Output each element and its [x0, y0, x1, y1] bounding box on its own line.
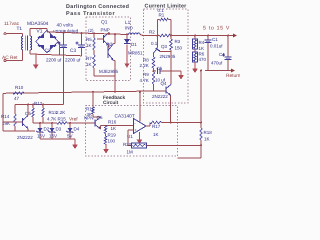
wire bend primary bottom [22, 50, 24, 61]
wire: D1 top lead [126, 34, 128, 39]
wire bend primary top [22, 34, 24, 36]
resistor R5 [93, 38, 96, 50]
junction return rail / sense [200, 70, 202, 72]
resistor R2 (on rail) [160, 34, 171, 37]
transistor Q2 (MJE2955) [107, 46, 109, 58]
junction D3 top [51, 122, 53, 124]
svg-text:2.2K: 2.2K [56, 110, 65, 115]
wire: D4 bottom lead [69, 132, 71, 139]
svg-text:2N2222: 2N2222 [17, 135, 33, 140]
junction line A corner [139, 91, 141, 93]
svg-text:unregulated: unregulated [53, 29, 79, 35]
svg-text:0.01uf: 0.01uf [210, 44, 223, 49]
wire: rail to output [171, 35, 234, 37]
wire: AC Ret to T1 primary bottom [6, 60, 23, 62]
svg-text:R20: R20 [123, 142, 132, 147]
junction C4 top [227, 35, 229, 37]
junction R4 top [194, 35, 196, 37]
current limiter dashed box [144, 9, 189, 103]
wire: Q1 emitter to rail [108, 32, 110, 34]
svg-text:R17: R17 [152, 124, 161, 129]
wire: R1 loop left [157, 20, 159, 36]
wire: C4 bottom lead [227, 60, 229, 71]
junction Q5 collector [27, 104, 29, 106]
wire: jog L1 to limiter rail [140, 35, 143, 36]
transistor Q4 (2N2222) [165, 87, 167, 94]
svg-text:4.7K: 4.7K [140, 78, 149, 83]
junction R11 top [92, 91, 94, 93]
ground below D1 [125, 64, 130, 69]
svg-text:R19: R19 [108, 132, 117, 137]
terminal 117vac [4, 33, 6, 35]
junction C2 top [63, 32, 65, 34]
ground right of C5 [180, 71, 182, 76]
svg-text:IND: IND [125, 26, 134, 31]
junction R12 top [32, 104, 34, 106]
resistor R7 [93, 55, 96, 68]
svg-text:+: + [134, 128, 137, 133]
svg-text:MR851: MR851 [128, 51, 143, 56]
svg-text:NPN: NPN [84, 116, 94, 121]
wire: secondary down to bridge top corner [46, 29, 48, 32]
svg-text:Pass Transistor: Pass Transistor [66, 11, 115, 17]
output arrowhead 5 to 15 V [233, 34, 237, 38]
wire: Q5 emitter to bottom rail [27, 129, 29, 132]
zener D2 [38, 128, 43, 132]
svg-text:5 to 15 V: 5 to 15 V [203, 26, 230, 32]
resistor R1 [160, 18, 169, 21]
capacitor C3 [78, 44, 85, 46]
svg-text:1K: 1K [153, 132, 159, 137]
svg-text:R15: R15 [58, 117, 67, 122]
wire: Vref line left part [33, 122, 57, 124]
svg-text:Vref: Vref [69, 117, 78, 123]
svg-text:R12: R12 [34, 101, 43, 106]
zener D4 [68, 128, 73, 132]
wire: bridge right corner stub [58, 41, 60, 43]
wire: line B horizontal [15, 104, 64, 106]
capacitor C1 [205, 39, 212, 41]
wire: Q5 collector up to line B [27, 105, 29, 116]
resistor R17 [150, 121, 162, 124]
feedback circuit dashed box [86, 106, 178, 157]
wire: D2 bottom lead [39, 132, 41, 139]
svg-text:R8: R8 [143, 58, 149, 63]
wire: bottom rail left [3, 130, 35, 132]
resistor R15 [57, 122, 67, 125]
wire: bottom return line [178, 157, 202, 159]
svg-text:150: 150 [175, 46, 183, 51]
T1 core line 1 [25, 36, 27, 51]
wire: D1 cathode down [126, 45, 128, 64]
wire: Q1 collector to Q2 [108, 45, 110, 48]
wire: Q6 emitter up [100, 126, 102, 130]
bridge diode 3 (bottom-left edge) [39, 45, 44, 50]
wire: R1 loop right [170, 20, 172, 36]
wire: R1 loop top-left [158, 19, 160, 21]
ground below bridge [35, 54, 37, 65]
wire: R12 top lead [32, 105, 34, 109]
svg-text:C4: C4 [219, 52, 225, 57]
svg-text:1K: 1K [204, 137, 210, 142]
capacitor C5 [157, 68, 159, 74]
wire: return rail [205, 70, 231, 72]
inductor L1 [129, 33, 141, 34]
diode D1 [124, 39, 130, 44]
resistor R3 [170, 39, 173, 50]
svg-text:470: 470 [199, 57, 207, 62]
junction R1 left [157, 35, 159, 37]
junction C5 node [153, 70, 155, 72]
svg-text:R5: R5 [86, 37, 92, 42]
wire: R1 loop top-right [169, 19, 172, 21]
svg-text:C1: C1 [212, 37, 218, 42]
svg-text:MJE2955: MJE2955 [99, 69, 119, 74]
wire: R11 bottom lead [92, 114, 94, 117]
svg-text:CA3140T: CA3140T [115, 114, 135, 120]
wire: R8 to R9 [153, 68, 155, 72]
transistor Q6 [94, 120, 96, 127]
capacitor C2 [60, 44, 67, 46]
svg-text:R3: R3 [175, 39, 181, 44]
wire: C1 top lead [207, 36, 209, 41]
resistor R20 [132, 143, 147, 148]
wire: D3 bottom lead [51, 132, 53, 139]
resistor R9 [152, 72, 155, 84]
svg-text:2200 uf: 2200 uf [65, 58, 81, 63]
wire: R11 top lead [92, 92, 94, 107]
T1 secondary winding [30, 36, 31, 50]
wire: output sense down to R18 [200, 71, 202, 123]
wire: Q3 collector down [153, 53, 155, 57]
resistor R6 [193, 52, 198, 62]
terminal AC Ret [4, 59, 6, 61]
wire: Q2 collector to rail [114, 34, 116, 43]
svg-text:1K: 1K [86, 62, 92, 67]
svg-text:15V: 15V [37, 134, 45, 139]
wire: R3 down to Q4 collector [170, 50, 172, 85]
wire: Q3 base to R3 column [160, 51, 172, 53]
capacitor C4 [225, 56, 232, 58]
junction D1 node [126, 33, 128, 35]
ground below R6 [194, 62, 196, 70]
resistor R12 [32, 108, 35, 117]
bridge rectifier V1 diamond [36, 30, 58, 53]
svg-text:C3: C3 [70, 48, 76, 54]
wire: R9 bottom to Q4 base line [153, 84, 155, 91]
resistor R16 [104, 126, 107, 134]
wire: C5 right lead [161, 70, 182, 72]
svg-text:2200 uf: 2200 uf [46, 58, 62, 63]
ground below R19 [105, 144, 107, 150]
svg-text:2N2222: 2N2222 [152, 94, 168, 99]
svg-text:4.7K: 4.7K [47, 117, 56, 122]
svg-text:R16: R16 [108, 120, 117, 125]
svg-text:R4: R4 [199, 40, 205, 45]
svg-text:47: 47 [14, 96, 20, 101]
wire: op-amp + input [128, 129, 134, 131]
svg-text:Darlington Connected: Darlington Connected [66, 4, 129, 10]
junction C1 top [207, 35, 209, 37]
resistor R13 [42, 108, 45, 117]
wire: R16 to R19 [105, 134, 107, 137]
wire: R5 top [93, 33, 95, 38]
svg-text:D4: D4 [74, 127, 80, 132]
darlington pass transistor dashed box [86, 17, 131, 81]
wire: R17 line to R18 [162, 122, 202, 124]
svg-text:R18: R18 [204, 130, 213, 135]
wire: R4 top lead [194, 36, 196, 40]
wire: C4 top lead [227, 36, 229, 58]
svg-text:T1: T1 [17, 26, 23, 32]
wire: filter ground rail (tilt) [30, 54, 81, 56]
wire: rail into limiter [143, 35, 160, 37]
wire: line A horizontal (R10 line, tilt) [3, 91, 166, 94]
wire: Q2 collector bend [114, 43, 116, 45]
wire: Q2 emitter bend [114, 60, 116, 62]
svg-text:D3: D3 [56, 127, 62, 132]
svg-text:R10: R10 [15, 85, 24, 90]
wire: Q4 emitter down to R17 line [170, 96, 172, 123]
wire: left vertical [2, 93, 4, 131]
wire: 117vac to T1 primary top [6, 33, 23, 35]
junction R13 top [42, 104, 44, 106]
svg-text:470uf: 470uf [211, 61, 223, 66]
wire: Q2 emitter down [114, 61, 116, 92]
wire: R18 top lead [200, 123, 202, 129]
wire: Q3 collector arm [154, 50, 157, 53]
bridge diode 1 (top-right edge) [50, 33, 55, 38]
svg-text:PNP: PNP [101, 28, 110, 33]
svg-text:R14: R14 [1, 114, 10, 119]
resistor R11 [92, 107, 95, 114]
bridge diode 2 (bottom-right edge) [50, 45, 55, 50]
wire: C2 top lead [63, 33, 65, 45]
svg-text:V1: V1 [37, 29, 43, 35]
wire: R7 to Q2 emitter line [94, 75, 115, 77]
junction C3 top [81, 32, 83, 34]
wire: Q1-Q2 link [108, 46, 109, 48]
resistor R10 [13, 92, 24, 95]
svg-text:Q4: Q4 [161, 81, 168, 86]
wire: secondary top up [29, 29, 31, 36]
resistor R18 [200, 128, 203, 140]
svg-text:2N2905: 2N2905 [160, 54, 176, 59]
wire: R13 top lead [42, 105, 44, 109]
wire: Vref line to Q6 base [67, 122, 96, 124]
svg-text:40 volts: 40 volts [57, 23, 74, 29]
svg-text:100: 100 [108, 139, 116, 144]
svg-text:R2: R2 [149, 30, 155, 35]
junction R20 wire / R18 col [200, 144, 202, 146]
resistor R19 [104, 136, 107, 144]
wire: line A drop to op-amp supply [139, 91, 141, 121]
wire: C2 column down to line B [63, 55, 65, 105]
ground op-amp V- [138, 134, 140, 141]
return arrowhead [231, 69, 235, 73]
wire: C3 top lead [81, 33, 83, 44]
wire: Q3 emitter from rail [157, 36, 159, 48]
wire: D2 top lead [39, 123, 41, 128]
svg-text:MDA3504: MDA3504 [27, 21, 49, 27]
resistor R8 [152, 57, 155, 68]
transistor Q3 (2N2905 PNP) [156, 49, 161, 52]
wire: unregulated rail (slight scan tilt) [47, 32, 129, 35]
junction D4 top [69, 122, 71, 124]
wire: to R20 [128, 144, 132, 146]
wire: R14 top lead [14, 105, 16, 115]
wire: R7 bottom [93, 68, 95, 76]
resistor R14 [14, 114, 17, 126]
wire: Q1 base [97, 38, 104, 40]
wire: R11 to Q6 collector [93, 116, 101, 118]
junction R18 top [200, 122, 202, 124]
svg-text:(2): (2) [88, 28, 94, 33]
svg-text:C2: C2 [45, 48, 51, 54]
wire: secondary bottom to gnd rail [29, 50, 31, 54]
wire: R3 top [170, 36, 172, 40]
svg-text:C5: C5 [157, 66, 163, 71]
junction R5 top [93, 32, 95, 34]
svg-text:2.2K: 2.2K [140, 63, 149, 68]
wire: D4 top lead [69, 123, 71, 128]
junction Q1 emitter [108, 33, 110, 35]
junction R1 right [170, 35, 172, 37]
svg-text:1M: 1M [127, 150, 134, 155]
wire: R20 to R18 bottom [147, 144, 202, 146]
wire: secondary top over to bridge [30, 28, 47, 30]
wire: R18 bottom lead [200, 140, 202, 158]
wire: R12 bottom lead [32, 117, 34, 123]
junction Q2 collector [114, 33, 116, 35]
wire: + input down [127, 130, 129, 145]
svg-text:R1: R1 [159, 13, 165, 18]
svg-text:Q3: Q3 [161, 44, 168, 49]
transistor Q1 (PNP) [103, 35, 105, 43]
T1 core line 2 [27, 36, 29, 51]
wire: R5 to R7 [93, 50, 95, 55]
wire: R14 bottom lead [14, 126, 16, 131]
wire: D3 top lead [51, 123, 53, 128]
svg-text:1K: 1K [86, 43, 92, 48]
ground below zeners [74, 139, 76, 146]
wire: op-amp output [146, 125, 150, 127]
wire: C5 left lead [154, 70, 157, 72]
svg-text:15V: 15V [49, 134, 57, 139]
svg-text:R7: R7 [86, 56, 92, 61]
wire: output up to R17 line [149, 123, 151, 127]
resistor R4 [193, 39, 198, 49]
wire: Q5 base [3, 121, 23, 123]
wire: R13 bottom lead [42, 117, 44, 123]
wire: R4 to R6 [194, 49, 196, 52]
svg-text:1K: 1K [111, 126, 117, 131]
svg-text:R11: R11 [86, 107, 94, 112]
junction Q2 emitter / line A [114, 91, 116, 93]
T1 primary winding [22, 36, 23, 50]
junction Q4 emitter / R17 line [170, 122, 172, 124]
wire: bridge right corner down to gnd rail [59, 42, 61, 55]
svg-text:Q1: Q1 [101, 20, 108, 26]
svg-text:D1: D1 [131, 42, 137, 47]
junction D2 top [39, 122, 41, 124]
svg-text:5V: 5V [67, 134, 73, 139]
bridge diode 4 (top-left edge) [39, 33, 44, 38]
transistor Q5 (2N2222) [22, 118, 24, 126]
wire: C1 bottom lead [207, 43, 209, 71]
svg-text:Return: Return [226, 73, 240, 79]
zener D3 [50, 128, 55, 132]
svg-text:1K: 1K [199, 46, 205, 51]
svg-text:0.1: 0.1 [151, 41, 158, 46]
wire: C2 bottom lead [63, 48, 65, 56]
wire: op-amp inverting input line [101, 125, 134, 127]
op-amp U1 triangle [134, 119, 147, 134]
svg-text:R9: R9 [143, 72, 149, 77]
wire: zener bottom rail [40, 138, 75, 140]
svg-text:R6: R6 [199, 52, 205, 57]
wire: C3 bottom lead [81, 48, 83, 56]
